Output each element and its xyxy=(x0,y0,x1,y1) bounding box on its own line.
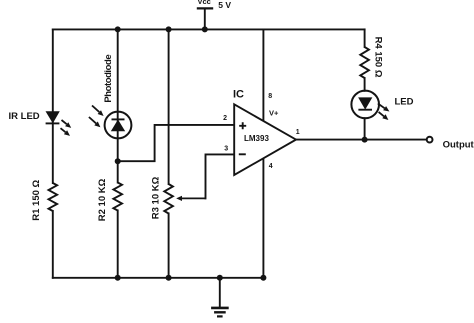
output terminal xyxy=(427,137,433,143)
resistor R3 potentiometer xyxy=(164,184,205,214)
wire pin 3 route to potentiometer wiper xyxy=(206,154,235,198)
node top rail / R3 column xyxy=(166,26,172,32)
node output line / LED column xyxy=(362,137,368,143)
wire photodiode column upper xyxy=(117,29,119,182)
resistor R1 xyxy=(49,183,58,211)
svg-text:3: 3 xyxy=(224,146,228,153)
wire bottom rail xyxy=(53,277,264,279)
resistor R2 xyxy=(113,183,122,211)
svg-text:2: 2 xyxy=(223,115,227,122)
svg-text:IC: IC xyxy=(233,88,244,100)
svg-text:R2 10 KΩ: R2 10 KΩ xyxy=(97,178,108,221)
wire left column lower (R1 to bottom rail) xyxy=(52,211,54,278)
node photodiode / R2 / pin 2 junction xyxy=(115,158,121,164)
node bottom rail / R3 xyxy=(166,275,172,281)
wire left column upper (Vcc to IR LED and R1) xyxy=(52,29,54,183)
node bottom rail / ground xyxy=(217,275,223,281)
wire pin 2 route from photodiode junction xyxy=(118,125,235,161)
ground xyxy=(211,278,229,317)
op-amp U1 LM393 comparator xyxy=(234,104,296,175)
wire pin 4 to bottom rail xyxy=(262,158,264,278)
wire R3 column lower xyxy=(168,214,170,278)
power Vcc 5V supply xyxy=(197,0,232,29)
svg-text:Output: Output xyxy=(443,139,474,150)
svg-text:R4 150 Ω: R4 150 Ω xyxy=(372,37,383,78)
wire pin 8 from top rail xyxy=(262,29,264,121)
node bottom rail / R2 xyxy=(115,275,121,281)
photodiode D2 symbol xyxy=(89,106,131,139)
svg-text:IR LED: IR LED xyxy=(9,111,40,122)
svg-text:R3 10 KΩ: R3 10 KΩ xyxy=(151,176,162,219)
svg-text:Vcc: Vcc xyxy=(198,0,211,6)
wire R4 to LED xyxy=(364,78,366,91)
wire photodiode column lower (R2 to bottom rail) xyxy=(117,211,119,278)
svg-text:V+: V+ xyxy=(269,109,279,118)
svg-text:5 V: 5 V xyxy=(218,0,231,10)
wire R4 column top xyxy=(364,29,366,47)
svg-text:8: 8 xyxy=(268,93,272,100)
wire LED to output line xyxy=(364,118,366,139)
svg-text:LM393: LM393 xyxy=(244,134,269,143)
svg-text:4: 4 xyxy=(269,163,273,170)
node bottom rail / pin 4 xyxy=(260,275,266,281)
wire top supply rail xyxy=(53,28,365,30)
node top rail / photodiode column xyxy=(115,26,121,32)
svg-text:R1 150 Ω: R1 150 Ω xyxy=(31,179,42,220)
svg-text:LED: LED xyxy=(395,97,414,108)
resistor R4 xyxy=(360,47,369,78)
wire output line xyxy=(296,139,426,141)
svg-text:Photodiode: Photodiode xyxy=(103,55,114,103)
wire R3 column upper xyxy=(168,29,170,184)
node Vcc junction on top rail xyxy=(202,26,208,32)
svg-text:1: 1 xyxy=(296,129,300,136)
LED D3 symbol xyxy=(351,91,389,120)
IR LED D1 symbol xyxy=(46,112,72,136)
